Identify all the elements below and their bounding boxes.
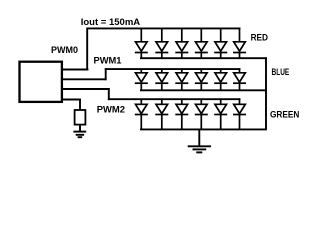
LED D6 (red row) <box>233 28 246 59</box>
LED D11 (blue row) <box>214 69 227 90</box>
svg-text:RED: RED <box>251 33 268 44</box>
LED D18 (green row) <box>233 98 246 129</box>
wire PWM2 from box <box>61 88 110 90</box>
svg-text:GREEN: GREEN <box>270 109 299 120</box>
wire PWM0 from box to riser <box>61 69 88 71</box>
LED D3 (red row) <box>175 28 188 58</box>
LED D17 (green row) <box>214 99 227 129</box>
wire PWM1 from box <box>61 78 107 80</box>
LED D15 (green row) <box>175 99 188 129</box>
LED D9 (blue row) <box>175 69 188 90</box>
LED D14 (green row) <box>155 99 168 129</box>
ground (below resistor) <box>73 132 86 138</box>
IC box U1 (PWM LED driver) <box>20 62 62 102</box>
LED D5 (red row) <box>214 28 227 58</box>
svg-text:Iout = 150mA: Iout = 150mA <box>81 17 141 28</box>
wire ground tap from GREEN cathode rail <box>198 129 200 146</box>
wire PWM1 riser up to BLUE rail <box>105 68 107 80</box>
wire RED cathode rail <box>140 57 267 59</box>
LED D8 (blue row) <box>155 69 168 90</box>
LED D13 (green row) <box>135 99 148 129</box>
resistor R1 body <box>75 110 86 125</box>
svg-text:PWM1: PWM1 <box>94 56 123 67</box>
wire GREEN anode rail <box>108 98 241 100</box>
wire BLUE anode rail <box>105 68 241 70</box>
wire PWM2 drop to GREEN rail <box>108 88 110 100</box>
LED D10 (blue row) <box>195 69 208 90</box>
LED D16 (green row) <box>195 99 208 129</box>
wire resistor bottom lead <box>79 125 81 132</box>
LED D4 (red row) <box>195 28 208 58</box>
wire from box to resistor <box>61 99 81 101</box>
wire drop into resistor <box>79 99 81 111</box>
LED D12 (blue row) <box>233 68 246 90</box>
wire PWM0 riser up to top rail <box>86 28 88 71</box>
LED D7 (blue row) <box>135 69 148 90</box>
LED D1 (red row) <box>135 28 148 58</box>
svg-text:BLUE: BLUE <box>272 67 290 78</box>
wire common-cathode vertical (right side) <box>265 57 267 129</box>
wire BLUE cathode rail <box>140 89 267 91</box>
svg-text:PWM0: PWM0 <box>51 45 78 56</box>
LED D2 (red row) <box>155 28 168 58</box>
wire top rail (Iout net, RED anode bus) <box>87 27 241 29</box>
ground (main, bottom center) <box>188 146 211 152</box>
wire GREEN cathode rail <box>140 128 267 130</box>
svg-text:PWM2: PWM2 <box>97 104 125 115</box>
